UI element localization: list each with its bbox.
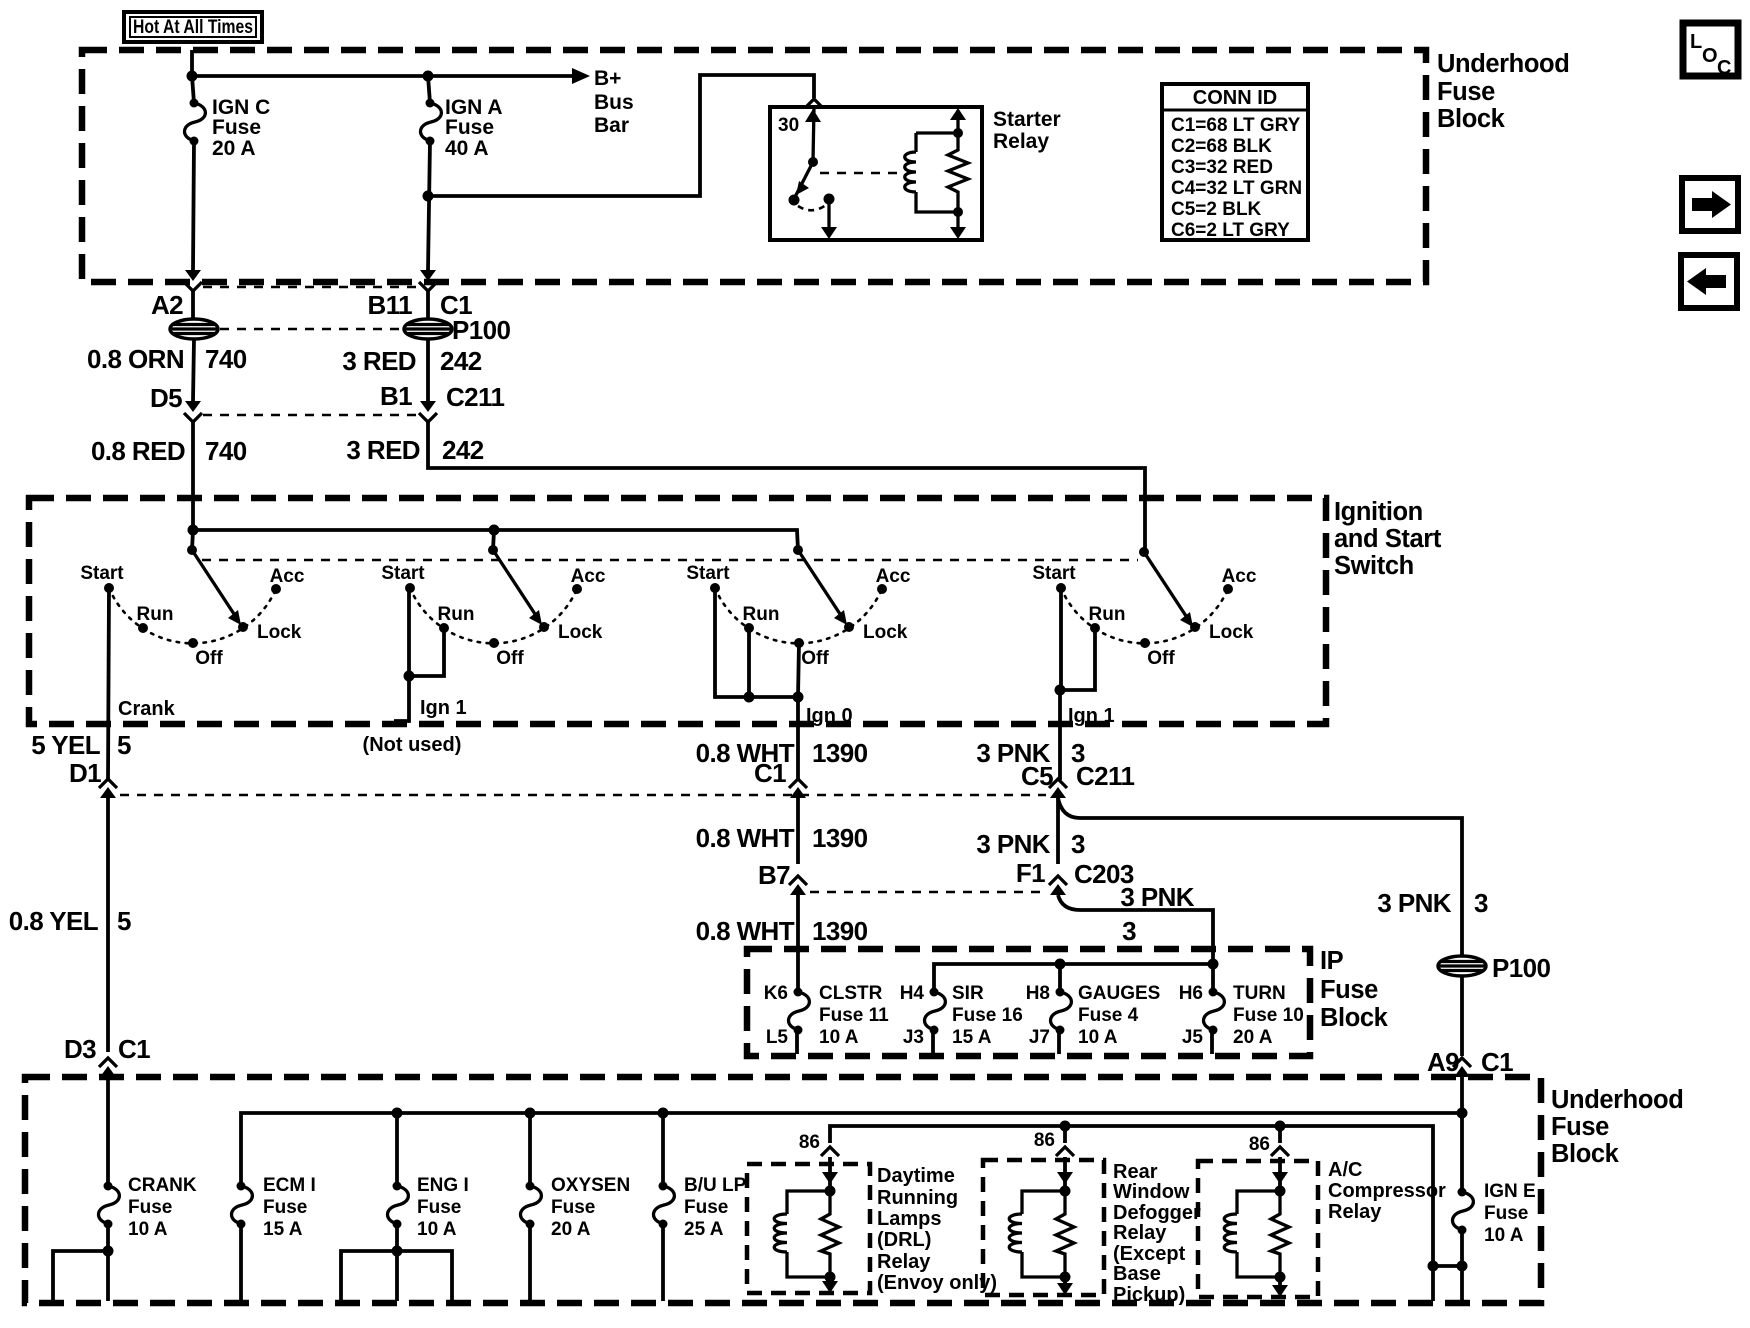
svg-text:J7: J7	[1029, 1027, 1050, 1048]
mechanical link dashed	[202, 559, 1138, 562]
svg-text:3 PNK: 3 PNK	[1377, 888, 1451, 918]
svg-text:Switch: Switch	[1334, 552, 1414, 580]
fuse OXYSEN 20A	[521, 1113, 631, 1301]
wire 3 PNK branch right	[1058, 798, 1462, 956]
svg-text:0.8 YEL: 0.8 YEL	[9, 906, 99, 936]
svg-text:B/U LP: B/U LP	[684, 1175, 747, 1196]
starter relay coil	[905, 133, 958, 212]
wire 0.8 WHT 1390 b	[696, 798, 868, 890]
svg-text:Off: Off	[496, 648, 524, 669]
alignment dash D5-B1	[203, 414, 418, 417]
svg-text:10 A: 10 A	[417, 1219, 457, 1240]
wire crank output	[53, 1224, 114, 1301]
svg-text:CRANK: CRANK	[128, 1175, 197, 1196]
svg-text:J5: J5	[1182, 1027, 1204, 1048]
svg-text:Acc: Acc	[571, 566, 606, 587]
wire Crank output	[108, 588, 176, 780]
wire IGN E feed	[1457, 1077, 1468, 1192]
svg-text:(Envoy only): (Envoy only)	[877, 1272, 997, 1294]
fuse SIR Fuse 16	[900, 983, 1023, 1054]
svg-text:Fuse 16: Fuse 16	[952, 1005, 1023, 1026]
A/C compressor relay box	[1198, 1159, 1446, 1297]
svg-text:Start: Start	[1032, 563, 1076, 584]
underhood fuse block (bottom) border	[25, 1077, 1541, 1303]
svg-text:Compressor: Compressor	[1328, 1180, 1446, 1202]
svg-text:Run: Run	[743, 604, 780, 625]
wire 0.8 ORN 740	[150, 339, 202, 422]
underhood fuse block (bottom) title	[1551, 1086, 1683, 1168]
svg-text:Block: Block	[1437, 105, 1506, 133]
IP internal bus	[934, 959, 1219, 993]
svg-text:Base: Base	[1113, 1263, 1161, 1285]
svg-text:C1: C1	[754, 758, 786, 788]
svg-text:10 A: 10 A	[1484, 1225, 1524, 1246]
svg-text:10 A: 10 A	[1078, 1027, 1118, 1048]
svg-text:5: 5	[117, 730, 131, 760]
starter relay terminal wires	[950, 108, 966, 239]
svg-text:Bar: Bar	[594, 114, 629, 137]
svg-text:86: 86	[1034, 1130, 1055, 1151]
svg-text:3 RED: 3 RED	[346, 435, 420, 465]
svg-text:ECM I: ECM I	[263, 1175, 316, 1196]
svg-text:Underhood: Underhood	[1551, 1086, 1683, 1114]
svg-text:Fuse: Fuse	[263, 1197, 307, 1218]
svg-text:Acc: Acc	[270, 566, 305, 587]
svg-text:Off: Off	[195, 648, 223, 669]
svg-text:20 A: 20 A	[1233, 1027, 1273, 1048]
svg-text:10 A: 10 A	[128, 1219, 168, 1240]
node IGN A branch	[423, 191, 434, 202]
svg-text:Fuse: Fuse	[684, 1197, 728, 1218]
svg-text:3 PNK: 3 PNK	[1120, 882, 1194, 912]
connector A2 (fuse block to P100)	[87, 270, 247, 374]
fuse IGN E 10A	[1453, 1181, 1536, 1246]
svg-text:C3=32 RED: C3=32 RED	[1171, 157, 1273, 178]
wire 0.8 RED to ignition switch	[191, 421, 195, 530]
underhood fuse block (top) title	[1437, 50, 1569, 133]
wire main fuse bus	[241, 1113, 1462, 1186]
svg-text:Bus: Bus	[594, 91, 634, 114]
rear defogger relay box	[983, 1160, 1201, 1306]
svg-text:J3: J3	[903, 1027, 924, 1048]
wire 3 PNK 3 to IP fuse block	[1058, 882, 1213, 964]
svg-text:Lock: Lock	[558, 622, 603, 643]
starter relay coil link (dashed)	[820, 172, 903, 175]
svg-text:Pickup): Pickup)	[1113, 1284, 1185, 1306]
label 0.8 WHT 1390 C1	[696, 738, 868, 788]
svg-text:86: 86	[1249, 1134, 1270, 1155]
svg-text:5: 5	[117, 906, 131, 936]
svg-text:Rear: Rear	[1113, 1161, 1158, 1183]
svg-text:D3: D3	[64, 1034, 96, 1064]
svg-text:Relay: Relay	[1328, 1201, 1382, 1223]
label 3 PNK 3 right	[1377, 888, 1488, 918]
svg-text:3: 3	[1474, 888, 1488, 918]
fuse IGN A 40A	[421, 76, 503, 160]
wire IGN A output	[428, 141, 430, 270]
svg-text:Fuse: Fuse	[1437, 78, 1495, 106]
svg-text:C6=2 LT GRY: C6=2 LT GRY	[1171, 220, 1290, 241]
svg-text:B11: B11	[368, 290, 413, 320]
wire Ign 1 not used	[363, 588, 467, 756]
svg-text:Lamps: Lamps	[877, 1208, 941, 1230]
svg-text:Crank: Crank	[118, 698, 176, 720]
svg-text:P100: P100	[1492, 953, 1550, 983]
svg-text:1390: 1390	[812, 823, 868, 853]
connector A9/C1	[1453, 1058, 1471, 1077]
connector C1	[789, 779, 807, 798]
starter relay switch arm	[789, 107, 838, 239]
svg-text:Block: Block	[1320, 1004, 1389, 1032]
svg-text:C4=32 LT GRN: C4=32 LT GRN	[1171, 178, 1302, 199]
svg-text:Fuse: Fuse	[551, 1197, 595, 1218]
svg-text:Lock: Lock	[863, 622, 908, 643]
svg-text:Block: Block	[1551, 1140, 1620, 1168]
connector chevron relay terminal 30	[805, 99, 823, 108]
svg-text:242: 242	[440, 346, 482, 376]
svg-text:Run: Run	[137, 604, 174, 625]
svg-text:10 A: 10 A	[819, 1027, 859, 1048]
svg-text:TURN: TURN	[1233, 983, 1286, 1004]
svg-text:Fuse: Fuse	[1551, 1113, 1609, 1141]
svg-text:30: 30	[778, 115, 799, 136]
wire 0.8 YEL 5	[9, 798, 131, 1052]
ignition and start switch border	[29, 498, 1326, 724]
node bus B/U LP	[658, 1108, 669, 1119]
svg-text:C1: C1	[118, 1034, 150, 1064]
label 0.8 RED 740	[91, 436, 247, 466]
svg-text:GAUGES: GAUGES	[1078, 983, 1160, 1004]
svg-text:Window: Window	[1113, 1181, 1190, 1203]
A/C compressor relay coil K3	[1224, 1157, 1289, 1297]
wire B+ bus bar	[192, 50, 634, 137]
underhood fuse block (top) border	[82, 50, 1426, 282]
svg-text:Start: Start	[381, 563, 425, 584]
svg-text:Lock: Lock	[1209, 622, 1254, 643]
connector chevron 86 A/C	[1249, 1126, 1289, 1156]
wire to starter relay	[428, 75, 814, 196]
svg-text:(DRL): (DRL)	[877, 1229, 931, 1251]
svg-text:Underhood: Underhood	[1437, 50, 1569, 78]
fuse ENG I 10A	[341, 1113, 469, 1301]
wire 3 RED to ignition switch	[428, 421, 1145, 551]
svg-text:0.8 WHT: 0.8 WHT	[696, 916, 795, 946]
svg-text:C: C	[1717, 57, 1731, 79]
svg-text:Fuse: Fuse	[1320, 976, 1378, 1004]
svg-text:D5: D5	[150, 383, 182, 413]
switch wafer 4 (Ign 1)	[1032, 547, 1257, 669]
fuse TURN Fuse 10	[1179, 964, 1304, 1054]
connector F1/C203	[1049, 876, 1067, 895]
svg-text:25 A: 25 A	[684, 1219, 724, 1240]
svg-text:Relay: Relay	[877, 1251, 931, 1273]
svg-text:H6: H6	[1179, 983, 1203, 1004]
wire IGN C output	[193, 141, 194, 270]
svg-text:Ignition: Ignition	[1334, 498, 1423, 526]
node bus OXYSEN	[525, 1108, 536, 1119]
starter relay U1	[770, 107, 1061, 240]
svg-text:Fuse 10: Fuse 10	[1233, 1005, 1304, 1026]
svg-text:ENG I: ENG I	[417, 1175, 469, 1196]
svg-text:B+: B+	[594, 67, 621, 90]
svg-text:C211: C211	[446, 382, 504, 412]
svg-text:Fuse: Fuse	[417, 1197, 461, 1218]
svg-text:Acc: Acc	[1222, 566, 1257, 587]
svg-text:Relay: Relay	[993, 130, 1049, 153]
switch wafer 3 (Ign 0)	[686, 545, 911, 669]
svg-text:3: 3	[1122, 916, 1136, 946]
svg-text:15 A: 15 A	[952, 1027, 992, 1048]
svg-text:Starter: Starter	[993, 108, 1061, 131]
svg-text:K6: K6	[764, 983, 788, 1004]
svg-text:CLSTR: CLSTR	[819, 983, 883, 1004]
rear defogger relay coil K2	[1009, 1157, 1074, 1295]
svg-text:Off: Off	[801, 648, 829, 669]
wire 3 RED 242	[380, 339, 505, 422]
ignition and start switch title	[1334, 498, 1442, 580]
svg-text:86: 86	[799, 1132, 820, 1153]
fuse B/U LP 25A	[654, 1113, 747, 1301]
svg-text:Fuse: Fuse	[212, 116, 261, 139]
svg-text:Off: Off	[1147, 648, 1175, 669]
DRL relay coil K1	[774, 1157, 839, 1293]
svg-text:L5: L5	[766, 1027, 789, 1048]
svg-text:OXYSEN: OXYSEN	[551, 1175, 630, 1196]
IP fuse block title	[1320, 947, 1389, 1032]
svg-text:3 RED: 3 RED	[342, 346, 416, 376]
svg-text:Ign 1: Ign 1	[420, 697, 467, 719]
svg-text:B7: B7	[758, 860, 790, 890]
wire stub sw2	[493, 530, 494, 550]
node bus ENG	[392, 1108, 403, 1119]
svg-text:B1: B1	[380, 381, 412, 411]
svg-text:3 PNK: 3 PNK	[976, 829, 1050, 859]
wire 0.8 WHT 1390 c	[696, 895, 868, 948]
switch wafer 1 (Crank)	[80, 545, 305, 669]
label 3 PNK 3 C5 C211	[976, 738, 1134, 791]
label 5 YEL 5	[31, 730, 131, 788]
label 3 RED 242 second	[346, 435, 483, 465]
svg-text:242: 242	[442, 435, 484, 465]
svg-text:D1: D1	[69, 758, 101, 788]
svg-text:40 A: 40 A	[445, 137, 489, 160]
node bus j1	[188, 525, 199, 536]
svg-text:C5=2 BLK: C5=2 BLK	[1171, 199, 1262, 220]
svg-text:Ign 0: Ign 0	[806, 705, 853, 727]
svg-text:1390: 1390	[812, 916, 868, 946]
wire Ign 1 output	[1055, 588, 1115, 780]
left arrow icon box	[1681, 255, 1737, 308]
svg-text:L: L	[1690, 31, 1702, 53]
wire IGN E output	[1428, 1230, 1468, 1301]
svg-text:0.8 WHT: 0.8 WHT	[696, 823, 795, 853]
svg-text:Run: Run	[1089, 604, 1126, 625]
alignment dash B7-F1	[810, 891, 1046, 894]
svg-text:Run: Run	[438, 604, 475, 625]
wire crank feed	[106, 1077, 110, 1186]
connector B11/C1 P100	[342, 270, 510, 376]
svg-text:Acc: Acc	[876, 566, 911, 587]
svg-text:and Start: and Start	[1334, 525, 1442, 553]
svg-text:IGN E: IGN E	[1484, 1181, 1536, 1202]
node bus junction left	[187, 71, 198, 82]
svg-text:Start: Start	[80, 563, 124, 584]
svg-text:A2: A2	[151, 290, 183, 320]
svg-text:740: 740	[205, 344, 247, 374]
alignment dash D1-C1-C5	[120, 794, 1046, 797]
svg-text:0.8 ORN: 0.8 ORN	[87, 344, 184, 374]
switch wafer 2 (Ign 1 not used)	[381, 545, 606, 669]
connector chevron 86 defogger	[1034, 1126, 1074, 1156]
svg-text:H4: H4	[900, 983, 925, 1004]
alignment dash A2-B11	[203, 286, 418, 289]
svg-text:3: 3	[1071, 829, 1085, 859]
connector P100 right	[1438, 953, 1550, 983]
svg-text:F1: F1	[1016, 858, 1045, 888]
svg-text:Hot At All Times: Hot At All Times	[133, 17, 253, 38]
svg-text:CONN ID: CONN ID	[1193, 87, 1277, 109]
hot at all times label	[124, 12, 262, 42]
svg-text:C2=68 BLK: C2=68 BLK	[1171, 136, 1272, 157]
svg-text:Relay: Relay	[1113, 1222, 1167, 1244]
svg-text:IP: IP	[1320, 947, 1344, 975]
connector chevron 86 DRL	[799, 1132, 839, 1156]
fuse GAUGES Fuse 4	[1026, 964, 1161, 1054]
svg-text:A/C: A/C	[1328, 1159, 1362, 1181]
svg-text:C1=68 LT GRY: C1=68 LT GRY	[1171, 115, 1301, 136]
svg-text:0.8 RED: 0.8 RED	[91, 436, 185, 466]
fuse ECM I 15A	[232, 1175, 316, 1301]
connector D3/C1	[99, 1058, 117, 1077]
connector B7	[789, 876, 807, 895]
svg-text:20 A: 20 A	[212, 137, 256, 160]
connector D1	[99, 779, 117, 798]
wire P100 to A9	[1427, 976, 1513, 1077]
wire ignition feed bus	[193, 530, 798, 550]
IP fuse block border	[747, 949, 1310, 1056]
fuse CRANK 10A	[99, 1175, 197, 1240]
svg-text:H8: H8	[1026, 983, 1050, 1004]
svg-text:SIR: SIR	[952, 983, 984, 1004]
label D3 C1	[64, 1034, 150, 1064]
node bus junction right	[423, 71, 434, 82]
svg-text:O: O	[1702, 45, 1718, 67]
LOC icon box	[1683, 23, 1738, 79]
CONN ID table	[1162, 84, 1308, 241]
wire Ign 0 output	[715, 588, 853, 780]
svg-text:1390: 1390	[812, 738, 868, 768]
svg-text:(Except: (Except	[1113, 1243, 1186, 1265]
svg-text:A9: A9	[1427, 1047, 1459, 1077]
svg-text:20 A: 20 A	[551, 1219, 591, 1240]
wire stub sw1	[192, 530, 193, 550]
svg-text:740: 740	[205, 436, 247, 466]
svg-text:Daytime: Daytime	[877, 1165, 955, 1187]
alignment dash barrels	[220, 328, 404, 331]
svg-text:Fuse 4: Fuse 4	[1078, 1005, 1139, 1026]
svg-text:Running: Running	[877, 1187, 958, 1209]
DRL relay box	[747, 1164, 997, 1294]
svg-text:Start: Start	[686, 563, 730, 584]
connector C5/C211	[1049, 779, 1067, 798]
svg-text:15 A: 15 A	[263, 1219, 303, 1240]
svg-text:Fuse: Fuse	[1484, 1203, 1528, 1224]
svg-text:Lock: Lock	[257, 622, 302, 643]
starter relay resistor	[948, 128, 968, 217]
fuse IGN C 20A	[185, 76, 271, 160]
svg-text:Fuse: Fuse	[445, 116, 494, 139]
fuse CLSTR Fuse 11	[764, 948, 889, 1054]
svg-text:P100: P100	[452, 315, 510, 345]
svg-text:5 YEL: 5 YEL	[31, 730, 100, 760]
wire relay coil bus	[830, 1121, 1433, 1267]
right arrow icon box	[1682, 178, 1738, 231]
svg-text:Fuse: Fuse	[128, 1197, 172, 1218]
svg-text:(Not used): (Not used)	[363, 734, 462, 756]
svg-text:Fuse 11: Fuse 11	[819, 1005, 889, 1026]
node bus j2	[489, 525, 500, 536]
svg-text:C211: C211	[1076, 761, 1134, 791]
wire 3 PNK 3 down	[976, 798, 1133, 889]
svg-text:Defogger: Defogger	[1113, 1202, 1201, 1224]
svg-text:Ign 1: Ign 1	[1068, 705, 1115, 727]
svg-text:C1: C1	[1481, 1047, 1513, 1077]
